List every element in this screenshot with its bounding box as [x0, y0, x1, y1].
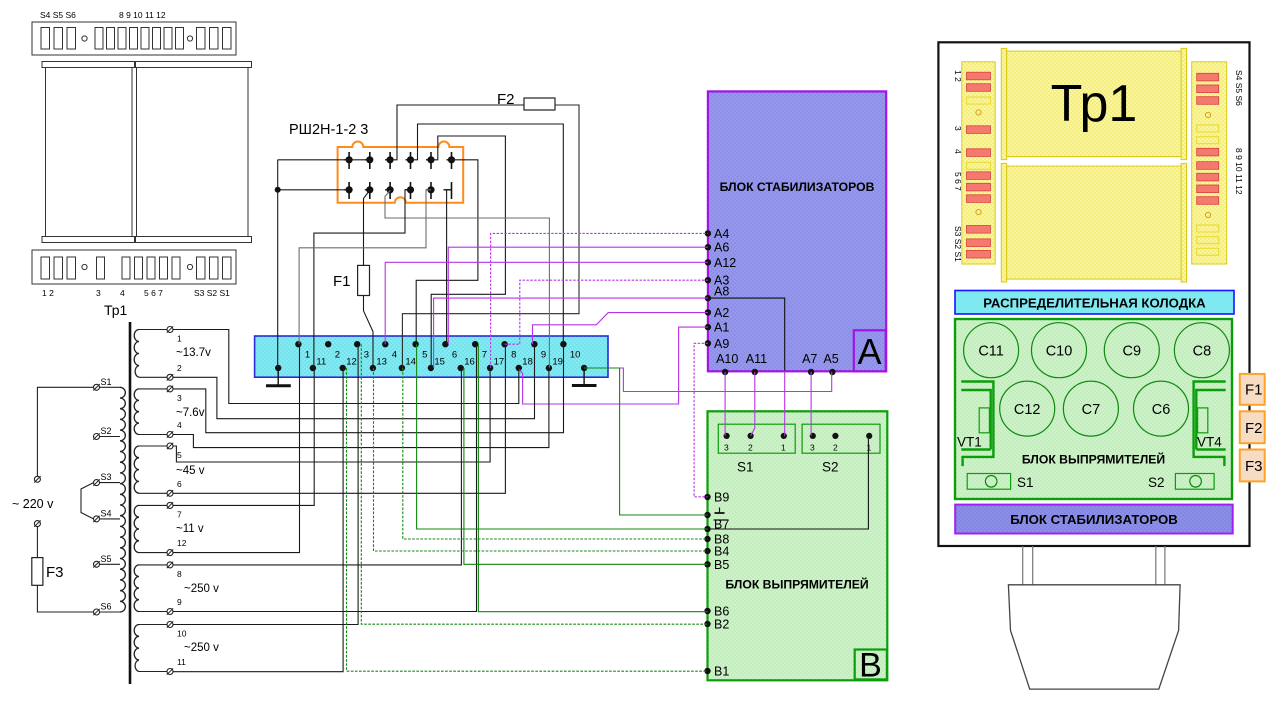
rotated pin labels left strip — [953, 70, 963, 262]
wire ground-right to A5 — [584, 368, 832, 392]
wire terminal 9 to A2 — [533, 313, 708, 345]
contact bar (left strip) — [967, 84, 991, 92]
svg-text:16: 16 — [464, 357, 475, 368]
wire pin3-top to F2 — [390, 105, 524, 160]
secondary winding 10-11 — [134, 625, 139, 672]
svg-text:~7.6v: ~7.6v — [176, 407, 205, 419]
wire connector left bus vertical — [277, 160, 279, 368]
wire tap6 to terminal 8 — [173, 344, 505, 493]
pin B5 — [704, 558, 729, 572]
svg-text:БЛОК СТАБИЛИЗАТОРОВ: БЛОК СТАБИЛИЗАТОРОВ — [720, 180, 875, 194]
svg-text:S1: S1 — [101, 377, 112, 387]
svg-text:БЛОК СТАБИЛИЗАТОРОВ: БЛОК СТАБИЛИЗАТОРОВ — [1010, 512, 1178, 527]
svg-text:7: 7 — [177, 509, 182, 519]
rivet circle (left strip) — [976, 110, 981, 115]
svg-text:9: 9 — [541, 350, 546, 361]
wire pin2-bottom to F1 — [364, 190, 370, 265]
pin B-ground — [704, 508, 724, 519]
empty contact slot (right strip) — [1197, 237, 1219, 244]
connector pin bottom 4 — [406, 182, 414, 199]
svg-text:1 2: 1 2 — [42, 288, 54, 298]
secondary winding 8-9 — [134, 565, 139, 612]
svg-text:C7: C7 — [1082, 402, 1101, 418]
empty contact slot (right strip) — [1197, 137, 1219, 144]
contact bar (left strip) — [967, 239, 991, 247]
svg-text:11: 11 — [177, 657, 186, 667]
contact bar (left strip) — [967, 250, 991, 258]
svg-text:B5: B5 — [714, 558, 729, 572]
pin B8 — [704, 533, 729, 547]
contact bar (right strip) — [1197, 97, 1219, 105]
svg-text:S3: S3 — [101, 472, 112, 482]
transformer Tp1 schematic: core — [129, 322, 132, 684]
capacitor C11 — [964, 323, 1019, 378]
node terminal 19 — [546, 357, 563, 372]
node terminal 6 — [442, 341, 457, 361]
svg-text:B: B — [859, 647, 882, 685]
svg-text:7: 7 — [482, 350, 487, 361]
tap 5 — [139, 443, 182, 460]
wire tap2 to terminal 9 — [173, 344, 535, 419]
wire ground-right to B-ground — [584, 368, 707, 515]
svg-text:8 9 10 11 12: 8 9 10 11 12 — [119, 10, 166, 20]
panel yellow connector strip left — [962, 62, 995, 264]
svg-text:F1: F1 — [333, 273, 351, 290]
svg-text:1: 1 — [867, 443, 872, 453]
wire pin5-top to terminal 15 — [431, 136, 506, 368]
svg-text:S4: S4 — [101, 508, 112, 518]
wire tap8 to terminal 16 — [173, 368, 461, 565]
svg-text:3: 3 — [724, 443, 729, 453]
wire pin4-top to terminal 10 — [411, 124, 564, 344]
node terminal 5 — [412, 341, 427, 361]
connector pin top 3 — [385, 152, 393, 169]
svg-text:15: 15 — [434, 357, 445, 368]
empty contact slot (left strip) — [967, 97, 991, 104]
svg-text:B6: B6 — [714, 605, 729, 619]
connector pin top 6 — [447, 152, 455, 169]
svg-text:S6: S6 — [101, 602, 112, 612]
pin A6 — [705, 241, 730, 255]
wire tap11 to terminal 12 — [173, 368, 343, 672]
svg-text:4: 4 — [392, 350, 397, 361]
wire terminal 4 to A12 — [385, 262, 708, 344]
svg-text:S1: S1 — [737, 460, 754, 475]
svg-text:5: 5 — [422, 350, 427, 361]
fuse F2 (panel) — [1240, 411, 1265, 443]
svg-text:S4 S5 S6: S4 S5 S6 — [40, 10, 76, 20]
capacitor C6 — [1134, 381, 1189, 436]
svg-text:C6: C6 — [1152, 402, 1171, 418]
svg-text:C11: C11 — [978, 344, 1004, 360]
wire terminal 7 to B6 — [478, 344, 707, 612]
svg-text:VT1: VT1 — [957, 435, 982, 450]
svg-text:Тр1: Тр1 — [104, 302, 128, 318]
wire F1 to terminal 13 — [364, 296, 374, 368]
wire A9 to B9 — [694, 343, 708, 497]
wire F2 to terminal 14 — [402, 105, 579, 368]
svg-text:~45 v: ~45 v — [176, 465, 205, 477]
tap 9 — [139, 597, 182, 615]
svg-text:~11 v: ~11 v — [176, 523, 204, 535]
svg-text:8: 8 — [177, 569, 182, 579]
tap 3 — [139, 386, 182, 403]
contact bar (right strip) — [1197, 197, 1219, 205]
contact bar (right strip) — [1197, 173, 1219, 181]
contact bar (right strip) — [1197, 85, 1219, 93]
pin B7 — [704, 518, 729, 533]
contact bar (left strip) — [967, 126, 991, 134]
labels S4 S5 S6 / 8 9 10 11 12 — [40, 10, 166, 20]
mains terminal lower — [34, 520, 40, 526]
wire terminal 5 to B7 — [417, 344, 708, 529]
node terminal 8 — [501, 341, 516, 361]
svg-text:2: 2 — [177, 363, 182, 373]
wire jumper S3-S4 — [81, 483, 94, 519]
wire terminal 18 to A1 — [519, 327, 708, 404]
right panel outer case — [938, 42, 1249, 546]
tap 7 — [139, 502, 182, 519]
node terminal 9 — [531, 341, 546, 361]
wire tap7 to terminal 11 — [173, 368, 314, 505]
svg-text:S2: S2 — [101, 426, 112, 436]
empty contact slot (left strip) — [967, 162, 991, 169]
wire block A bottom to S1 pin1 — [784, 372, 786, 436]
wire A7 to S2 pin3 — [810, 372, 812, 436]
switch S2 (panel) — [1148, 474, 1214, 491]
wire connector pin1 bottom bus — [278, 189, 349, 191]
transistor VT4 — [1194, 382, 1226, 467]
tap 1 — [139, 326, 182, 343]
node terminal 10 — [560, 341, 580, 361]
tap 2 — [139, 363, 182, 381]
svg-text:C12: C12 — [1014, 402, 1041, 418]
node terminal 15 — [428, 357, 445, 372]
tap 10 — [139, 621, 187, 638]
block B rectifiers — [708, 411, 888, 680]
pin A9 — [705, 337, 730, 351]
switch S1 (panel) — [967, 474, 1033, 491]
connector pin top 1 — [344, 152, 352, 169]
wire F3 to S6 — [37, 585, 93, 612]
contact bar (left strip) — [967, 226, 991, 234]
node terminal 17 — [487, 357, 504, 372]
pin A10 — [716, 352, 738, 375]
svg-text:S2: S2 — [822, 460, 839, 475]
wire B7 to S2 pin1 (internal) — [708, 439, 869, 529]
secondary winding 5-6 — [134, 446, 139, 493]
wire pin6-top to terminal 5 — [416, 160, 478, 344]
block A corner label box — [854, 330, 886, 372]
svg-text:F1: F1 — [1245, 382, 1263, 399]
wire connector pin1-2 top bus — [278, 159, 370, 161]
svg-text:C9: C9 — [1123, 344, 1142, 360]
svg-text:A7: A7 — [802, 352, 817, 366]
wire tap10 to terminal 3 — [173, 344, 358, 624]
wire tap9 to terminal 7 — [173, 344, 477, 611]
wire tap4 to terminal 19 — [173, 368, 549, 448]
fuse F3 — [32, 558, 43, 586]
svg-text:17: 17 — [494, 357, 505, 368]
svg-text:S1: S1 — [1017, 475, 1034, 490]
capacitor C9 — [1104, 323, 1159, 378]
node ground-right — [581, 365, 587, 371]
node terminal 7 — [472, 341, 487, 361]
fuse F2 — [524, 98, 555, 110]
labels 1 2 3 4 5 6 7 S3 S2 S1 — [42, 288, 230, 298]
empty contact slot (right strip) — [1197, 125, 1219, 132]
svg-text:4: 4 — [953, 149, 963, 154]
block B corner label box — [855, 647, 887, 685]
wire pin4-bottom to terminal 11 — [314, 190, 411, 368]
wire terminal 13 to B4 — [374, 368, 708, 551]
tap S6 — [93, 602, 120, 616]
pin A5 — [823, 352, 838, 375]
node terminal 1 — [295, 341, 310, 361]
pin A12 — [705, 256, 737, 270]
node terminal 12 — [340, 357, 357, 372]
connector pin top 4 — [406, 152, 414, 169]
tap S2 — [93, 426, 120, 440]
svg-text:A8: A8 — [714, 285, 729, 299]
panel transformer core upper — [1001, 48, 1186, 159]
svg-text:10: 10 — [570, 350, 581, 361]
node ground-left — [275, 365, 281, 371]
svg-text:5 6 7: 5 6 7 — [144, 288, 163, 298]
svg-text:6: 6 — [452, 350, 457, 361]
pin B4 — [704, 545, 729, 559]
svg-text:A10: A10 — [716, 352, 738, 366]
svg-text:S3 S2 S1: S3 S2 S1 — [194, 288, 230, 298]
empty contact slot (right strip) — [1197, 248, 1219, 255]
switch connector S1 — [718, 424, 795, 474]
tap 12 — [139, 538, 187, 556]
connector pin bottom 5 — [426, 182, 434, 199]
svg-text:B1: B1 — [714, 665, 729, 679]
pin A2 — [705, 306, 730, 320]
panel transformer core lower — [1001, 163, 1186, 282]
wire pin5-bottom to terminal 1 — [299, 190, 431, 344]
capacitor C7 — [1063, 381, 1118, 436]
svg-text:F3: F3 — [1245, 458, 1263, 475]
pin B6 — [704, 605, 729, 619]
wire terminal 14 to B8 — [403, 368, 708, 539]
tap 8 — [139, 562, 182, 579]
contact bar (left strip) — [967, 72, 991, 80]
svg-text:БЛОК ВЫПРЯМИТЕЛЕЙ: БЛОК ВЫПРЯМИТЕЛЕЙ — [1022, 452, 1165, 467]
pin A4 — [705, 227, 730, 241]
svg-text:3: 3 — [953, 126, 963, 131]
svg-text:S3 S2 S1: S3 S2 S1 — [953, 226, 963, 262]
distribution terminal strip — [255, 336, 608, 377]
svg-text:5: 5 — [177, 450, 182, 460]
svg-text:~250 v: ~250 v — [184, 583, 219, 595]
pin A7 — [802, 352, 817, 375]
svg-text:F2: F2 — [1245, 420, 1263, 437]
secondary winding 1-2 — [134, 330, 139, 378]
wire terminal 17 to A4 — [491, 233, 708, 367]
connector pin bottom 1 — [344, 182, 352, 199]
wire terminal 12 to B1 — [347, 368, 708, 671]
wire pin3-bottom to terminal 19 — [385, 191, 549, 368]
tap 6 — [139, 479, 182, 497]
svg-text:3: 3 — [364, 350, 369, 361]
svg-text:10: 10 — [177, 629, 187, 639]
svg-text:14: 14 — [405, 357, 416, 368]
svg-text:S2: S2 — [1148, 475, 1165, 490]
fuse F1 — [358, 265, 370, 295]
empty contact slot (right strip) — [1197, 225, 1219, 232]
wire A10 to S1 pin3 — [724, 372, 726, 436]
svg-text:A6: A6 — [714, 241, 729, 255]
block A stabilizers — [708, 91, 886, 371]
svg-text:3: 3 — [177, 393, 182, 403]
node terminal 3 — [354, 341, 369, 361]
secondary winding 7-12 — [134, 505, 139, 552]
pin A1 — [705, 321, 730, 335]
wire terminal 3 to B2 — [361, 344, 707, 624]
svg-text:A4: A4 — [714, 227, 729, 241]
tap S1 — [93, 377, 120, 391]
svg-text:C10: C10 — [1046, 344, 1073, 360]
svg-text:~250 v: ~250 v — [184, 642, 219, 654]
svg-text:11: 11 — [316, 357, 326, 368]
svg-text:1 2: 1 2 — [953, 70, 963, 82]
contact bar (left strip) — [967, 172, 991, 180]
svg-text:B7: B7 — [714, 518, 729, 532]
svg-text:8: 8 — [511, 350, 516, 361]
fuse F1 (panel) — [1240, 374, 1265, 405]
svg-text:F3: F3 — [46, 564, 64, 581]
wire terminal 16 to B5 — [464, 368, 708, 564]
svg-text:18: 18 — [522, 357, 533, 368]
connector pin top 2 — [365, 152, 373, 169]
connector pin top 5 — [426, 152, 434, 169]
transformer Tp1 physical: top terminal strip — [32, 22, 236, 55]
ground symbol left — [266, 368, 291, 386]
svg-text:A1: A1 — [714, 321, 729, 335]
capacitor C12 — [1000, 381, 1055, 436]
svg-text:2: 2 — [833, 443, 838, 453]
tap 4 — [139, 420, 182, 438]
wire pin6-bottom tick to terminal 6 — [446, 190, 448, 344]
node terminal 14 — [399, 357, 416, 372]
svg-text:C8: C8 — [1193, 344, 1212, 360]
svg-text:A: A — [857, 331, 881, 372]
node terminal 18 — [516, 357, 533, 372]
contact bar (left strip) — [967, 149, 991, 157]
svg-text:9: 9 — [177, 597, 182, 607]
svg-text:4: 4 — [177, 420, 182, 430]
panel yellow connector strip right — [1192, 62, 1227, 264]
rivet circle (left strip) — [976, 210, 981, 215]
node terminal 16 — [458, 357, 475, 372]
base trapezoid — [1008, 585, 1180, 689]
svg-text:19: 19 — [552, 357, 563, 368]
svg-text:РАСПРЕДЕЛИТЕЛЬНАЯ КОЛОДКА: РАСПРЕДЕЛИТЕЛЬНАЯ КОЛОДКА — [983, 296, 1206, 311]
contact bar (right strip) — [1197, 73, 1219, 81]
svg-text:Тр1: Тр1 — [1051, 75, 1138, 133]
wire tap12 to terminal 1 — [173, 344, 300, 552]
rivet circle (right strip) — [1205, 212, 1210, 217]
svg-text:VT4: VT4 — [1197, 435, 1222, 450]
wire A8 internal to block bottom — [708, 298, 785, 370]
panel rectifier block — [955, 319, 1232, 499]
tap S5 — [93, 554, 120, 568]
switch connector S2 — [802, 424, 880, 474]
contact bar (left strip) — [967, 195, 991, 203]
connector RSh2N-1-2 3 outline — [338, 142, 464, 203]
primary winding — [120, 387, 125, 612]
panel stabilizer strip label — [955, 505, 1232, 534]
mains terminal upper — [34, 476, 40, 482]
svg-text:A2: A2 — [714, 306, 729, 320]
connector pin bottom 6 — [444, 182, 452, 199]
node terminal 4 — [382, 341, 397, 361]
svg-text:A9: A9 — [714, 337, 729, 351]
svg-text:2: 2 — [748, 443, 753, 453]
wire terminal 8 to A3 — [505, 280, 708, 344]
svg-text:~13.7v: ~13.7v — [176, 347, 211, 359]
wire tap5 to terminal 17 — [173, 368, 490, 462]
svg-text:B4: B4 — [714, 545, 729, 559]
svg-text:12: 12 — [177, 538, 187, 548]
wire mains to F3 — [36, 527, 38, 558]
rivet circle (right strip) — [1205, 112, 1210, 117]
svg-text:A5: A5 — [823, 352, 838, 366]
svg-text:5 6 7: 5 6 7 — [953, 172, 963, 191]
svg-text:~ 220 v: ~ 220 v — [12, 497, 54, 511]
contact bar (left strip) — [967, 183, 991, 191]
svg-text:1: 1 — [781, 443, 786, 453]
node terminal 11 — [310, 357, 327, 372]
tap S3 — [93, 472, 120, 486]
node terminal 13 — [370, 357, 387, 372]
svg-text:B2: B2 — [714, 618, 729, 632]
node terminal 2 — [325, 341, 340, 361]
wire A11 to S1 pin2 — [751, 372, 755, 436]
svg-text:3: 3 — [96, 288, 101, 298]
mounting legs — [1023, 546, 1165, 585]
svg-text:2: 2 — [335, 350, 340, 361]
node junction left bus — [275, 187, 281, 193]
contact bar (right strip) — [1197, 162, 1219, 170]
connector pin bottom 3 — [385, 182, 393, 199]
wire mains to S1 — [37, 387, 93, 476]
svg-text:8 9 10 11 12: 8 9 10 11 12 — [1234, 148, 1244, 195]
fuse F3 (panel) — [1240, 450, 1265, 482]
svg-text:1: 1 — [305, 350, 310, 361]
pin B2 — [704, 618, 729, 632]
panel distribution strip label — [955, 291, 1234, 315]
wire terminal 15 to A8 — [434, 298, 708, 368]
ground symbol right — [572, 368, 597, 386]
svg-text:B9: B9 — [714, 491, 729, 505]
wire tap3 to terminal 10 — [173, 344, 564, 433]
svg-text:A11: A11 — [746, 352, 767, 366]
transformer Tp1 physical: bottom terminal strip — [32, 250, 236, 284]
wire terminal 6 to A6 — [448, 247, 708, 344]
capacitor C8 — [1174, 323, 1229, 378]
pin A8 — [705, 285, 730, 302]
tap S4 — [93, 508, 120, 522]
contact bar (right strip) — [1197, 185, 1219, 193]
svg-text:РШ2Н-1-2 3: РШ2Н-1-2 3 — [289, 122, 368, 138]
pin A3 — [705, 274, 730, 288]
svg-text:3: 3 — [810, 443, 815, 453]
transistor VT1 — [961, 382, 993, 467]
svg-text:6: 6 — [177, 479, 182, 489]
